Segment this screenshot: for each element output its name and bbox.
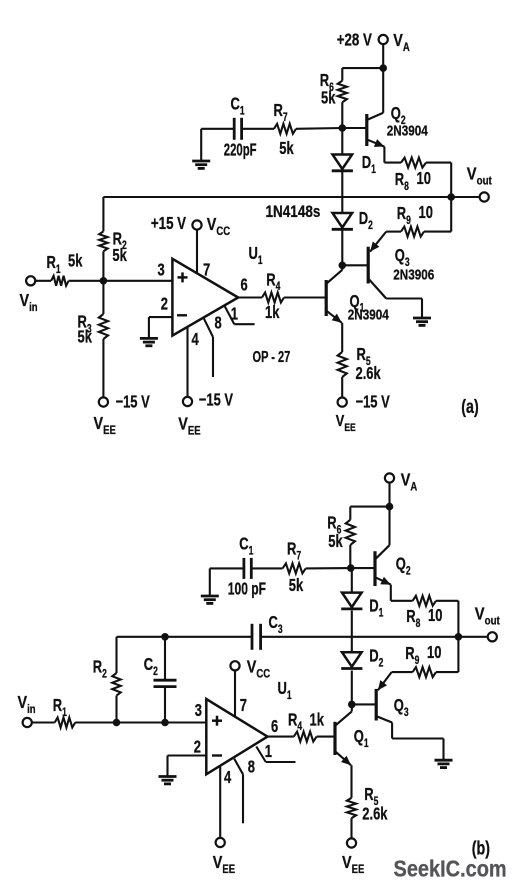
wire	[341, 377, 343, 398]
resistor R5 (b)	[347, 785, 388, 824]
resistor R7 (a)	[274, 101, 297, 159]
pin 6 wire (b)	[268, 717, 294, 737]
svg-text:5k: 5k	[289, 576, 304, 596]
svg-text:+15 V: +15 V	[151, 214, 187, 233]
pin 6 wire (a)	[238, 276, 262, 298]
svg-text:8: 8	[248, 758, 255, 778]
resistor R3 (a)	[78, 313, 109, 347]
wire	[210, 567, 244, 569]
pin 4 wire (a)	[188, 328, 199, 397]
svg-text:1N4148s: 1N4148s	[266, 203, 321, 222]
label (b)	[472, 838, 490, 859]
svg-text:3: 3	[195, 701, 202, 721]
wire	[451, 196, 479, 198]
wire	[386, 197, 451, 232]
resistor R8 (b)	[406, 596, 442, 630]
capacitor C3 (b)	[252, 613, 283, 650]
resistor R1 (a)	[47, 252, 83, 286]
wire	[251, 567, 282, 569]
wire	[102, 251, 104, 280]
wire	[261, 636, 459, 638]
terminal Vin (a)	[20, 276, 38, 314]
pin 1 wire (b)	[256, 742, 295, 762]
terminal Vout (a)	[467, 164, 492, 201]
ground (a Q3)	[413, 318, 431, 325]
pin 2 ground wire (a)	[149, 317, 173, 338]
svg-text:5k: 5k	[328, 532, 343, 552]
pin 7 wire (a)	[197, 230, 210, 280]
svg-text:1: 1	[231, 305, 238, 325]
wire	[102, 281, 104, 314]
svg-text:4: 4	[224, 768, 231, 788]
node input (a)	[100, 277, 108, 285]
terminal -15V vEE (a R5)	[336, 393, 390, 435]
resistor R9 (a)	[397, 203, 433, 237]
label (a)	[461, 396, 478, 417]
resistor R7 (b)	[283, 540, 306, 596]
diode D2 (b)	[341, 647, 383, 670]
terminal VEE (b pin4)	[213, 838, 235, 876]
resistor R5 (a)	[338, 345, 381, 384]
wire	[351, 568, 353, 593]
wire	[350, 818, 352, 838]
node C2 bottom (b)	[161, 719, 169, 727]
op-amp U1 (a)	[158, 244, 291, 365]
svg-text:6: 6	[241, 276, 248, 296]
svg-text:(a): (a)	[461, 396, 478, 417]
node D2/Q1/Q3 (b)	[348, 701, 356, 709]
wire	[350, 704, 352, 797]
wire	[350, 507, 389, 520]
wire	[349, 545, 351, 568]
resistor R4 (a)	[262, 270, 284, 322]
wire	[391, 585, 413, 601]
svg-text:−15 V: −15 V	[356, 393, 391, 413]
diode D1 (b)	[341, 593, 383, 620]
node R2 bottom (b)	[113, 719, 121, 727]
label SeekIC.com	[394, 855, 507, 882]
svg-text:OP - 27: OP - 27	[253, 348, 291, 365]
wire	[115, 637, 117, 673]
terminal VCC (b)	[230, 657, 270, 681]
node VA rail (b)	[386, 503, 394, 511]
svg-text:3: 3	[158, 261, 165, 281]
wire	[382, 44, 384, 68]
svg-text:1k: 1k	[310, 710, 325, 730]
node R6/R7/D1 (b)	[347, 564, 355, 572]
node Vout (b)	[455, 633, 463, 641]
svg-text:10: 10	[427, 643, 442, 663]
wire	[306, 567, 351, 569]
svg-text:6: 6	[271, 717, 278, 737]
capacitor C1 (b)	[228, 535, 266, 600]
wire	[201, 128, 234, 130]
wire	[209, 568, 211, 596]
terminal VEE (b R5)	[342, 838, 364, 876]
svg-text:2.6k: 2.6k	[356, 364, 381, 384]
wire	[296, 127, 342, 130]
pin 1 wire (a)	[225, 305, 255, 325]
wire	[341, 172, 343, 213]
terminal -15V VEE (a R3)	[94, 393, 151, 438]
svg-text:2N3906: 2N3906	[393, 266, 434, 283]
resistor R2 (a)	[99, 229, 127, 265]
ground (b Q3)	[435, 760, 453, 767]
svg-text:4: 4	[192, 330, 199, 350]
resistor R1 (b)	[53, 696, 75, 727]
node R6/R7/D1 (a)	[339, 124, 347, 132]
wire	[341, 102, 343, 128]
ground (a op-amp)	[140, 338, 158, 345]
pin 2 ground wire (b)	[168, 756, 207, 777]
wire	[69, 280, 173, 282]
wire	[341, 265, 343, 352]
resistor R4 (b)	[288, 710, 324, 741]
resistor R6 (a)	[320, 71, 347, 108]
transistor Q2 (b)	[351, 507, 411, 586]
node VA rail (a)	[379, 64, 387, 72]
svg-text:2.6k: 2.6k	[362, 805, 387, 825]
ground (b C1)	[201, 596, 219, 603]
svg-text:2N3904: 2N3904	[348, 306, 389, 323]
wire feedback (b)	[117, 636, 253, 638]
resistor R6 (b)	[327, 514, 355, 552]
resistor R8 (a)	[395, 158, 431, 194]
wire	[75, 721, 206, 723]
transistor Q2 (a)	[342, 68, 428, 147]
wire	[392, 637, 459, 672]
wire	[32, 721, 55, 723]
svg-text:2: 2	[161, 295, 168, 315]
terminal +15V VCC (a)	[151, 214, 230, 238]
wire	[458, 636, 487, 638]
op-amp U1 (b)	[194, 679, 292, 774]
svg-text:+28 V: +28 V	[337, 31, 373, 50]
transistor Q1 (b)	[335, 711, 369, 765]
wire	[351, 671, 353, 705]
wire	[342, 68, 383, 81]
pin 7 wire (b)	[235, 670, 247, 716]
wire	[317, 736, 335, 738]
ground (b op-amp)	[159, 777, 177, 784]
transistor Q3 (a)	[342, 232, 434, 318]
svg-text:1k: 1k	[265, 303, 280, 323]
pin 4 wire (b)	[220, 766, 231, 838]
svg-text:7: 7	[240, 696, 247, 716]
diode D2 (a)	[332, 209, 373, 232]
wire	[200, 129, 202, 161]
pin 8 wire (a)	[203, 314, 222, 377]
resistor R2 (b)	[93, 658, 121, 696]
node D2/Q1/Q3 (a)	[339, 262, 347, 270]
svg-text:5k: 5k	[321, 89, 336, 109]
diode D1 (a)	[332, 153, 376, 176]
wire	[242, 128, 274, 130]
svg-text:−15 V: −15 V	[199, 391, 234, 411]
capacitor C2 (b)	[144, 655, 177, 687]
wire	[351, 611, 353, 653]
terminal +28V VA (a)	[337, 31, 410, 55]
svg-text:10: 10	[419, 203, 434, 223]
svg-text:−15 V: −15 V	[116, 393, 151, 413]
svg-text:220pF: 220pF	[224, 140, 257, 160]
wire	[341, 128, 343, 155]
svg-text:5k: 5k	[78, 327, 93, 347]
wire	[388, 483, 390, 507]
capacitor C1 (a)	[224, 95, 257, 161]
pin 8 wire (b)	[234, 758, 255, 824]
wire feedback (a)	[103, 196, 451, 198]
svg-text:8: 8	[215, 314, 222, 334]
wire	[426, 163, 451, 197]
resistor R9 (b)	[405, 643, 441, 677]
svg-text:100 pF: 100 pF	[228, 579, 266, 599]
svg-text:5k: 5k	[279, 139, 294, 159]
ground (a C1)	[192, 161, 210, 168]
svg-text:7: 7	[203, 261, 210, 281]
wire	[284, 296, 326, 298]
label 1N4148s	[266, 203, 321, 222]
svg-text:10: 10	[417, 169, 432, 189]
terminal VA (b)	[385, 470, 418, 494]
svg-text:SeekIC.com: SeekIC.com	[394, 855, 507, 882]
wire	[35, 280, 51, 282]
wire	[164, 637, 166, 680]
wire	[115, 696, 117, 723]
node C2 top (b)	[161, 633, 169, 641]
terminal Vin (b)	[18, 693, 36, 728]
wire	[164, 687, 166, 723]
wire	[102, 197, 104, 231]
svg-text:10: 10	[428, 606, 443, 626]
terminal Vout (b)	[475, 604, 500, 641]
svg-text:2: 2	[194, 738, 201, 758]
svg-text:5k: 5k	[68, 252, 83, 272]
terminal -15V VEE (a pin4)	[178, 391, 233, 438]
svg-text:5k: 5k	[112, 246, 127, 266]
transistor Q1 (a)	[326, 270, 389, 323]
transistor Q3 (b)	[352, 672, 444, 760]
wire	[341, 228, 343, 265]
wire	[436, 601, 458, 637]
svg-text:1: 1	[265, 742, 272, 762]
node Vout (a)	[447, 193, 455, 201]
wire	[384, 147, 401, 163]
svg-text:2N3904: 2N3904	[387, 122, 428, 139]
wire	[102, 339, 104, 397]
